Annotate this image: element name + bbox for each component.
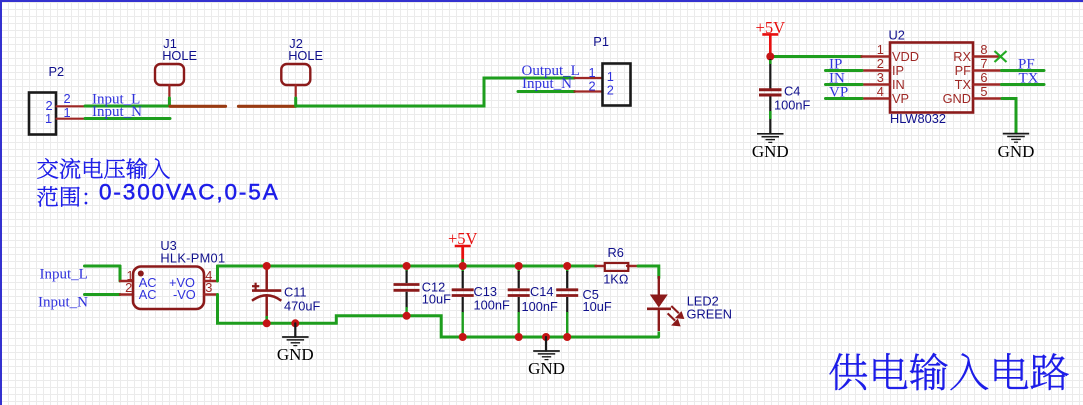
connector P1 body (603, 64, 631, 106)
svg-text:GREEN: GREEN (687, 307, 733, 322)
svg-text:2: 2 (607, 83, 614, 98)
U2 pin 5 stub (973, 97, 1002, 99)
ground GND right of U2 (998, 134, 1035, 161)
svg-text:IN: IN (892, 77, 905, 92)
node C11 top junction (263, 262, 271, 270)
wire L to P1 (296, 78, 575, 106)
P1 pin 1 stub (575, 77, 603, 79)
svg-text:8: 8 (980, 42, 987, 57)
wire Input_L from P2 (85, 105, 170, 108)
svg-text:C14: C14 (530, 284, 553, 299)
annotation 范围： (37, 186, 87, 206)
left border (0, 0, 2, 405)
svg-text:1: 1 (877, 42, 884, 57)
svg-text:1KΩ: 1KΩ (603, 272, 629, 287)
svg-text:Input_N: Input_N (92, 104, 142, 120)
U3 pin 4 stub (204, 280, 218, 282)
svg-text:GND: GND (277, 345, 314, 364)
svg-text:RX: RX (953, 49, 971, 64)
wire -VO down to bottom rail (218, 295, 659, 338)
U3 pin1 marker dot (138, 271, 144, 277)
svg-text:TX: TX (1019, 71, 1039, 87)
power +5V lower (448, 229, 478, 248)
node C14 bottom (515, 333, 523, 341)
svg-text:5: 5 (980, 84, 987, 99)
capacitor C5 (556, 266, 578, 337)
svg-text:0-300VAC,0-5A: 0-300VAC,0-5A (99, 180, 280, 205)
module U3 body (133, 267, 204, 310)
svg-text:P2: P2 (49, 64, 65, 79)
svg-text:470uF: 470uF (284, 299, 320, 314)
svg-text:2: 2 (125, 280, 132, 295)
svg-text:PF: PF (955, 63, 972, 78)
power +5V upper (756, 18, 786, 37)
U2 pin 7 stub (973, 69, 1002, 71)
R6 right stub (627, 265, 638, 267)
top border (0, 0, 1083, 2)
wire +5V down (769, 34, 772, 57)
wire J1 to Input_L (168, 98, 171, 106)
U3 pin 3 stub (204, 293, 218, 295)
svg-text:3: 3 (877, 70, 884, 85)
wire +5V lower down (461, 246, 464, 261)
svg-text:Input_L: Input_L (40, 267, 88, 283)
net label IN wire (826, 83, 863, 86)
net label TX wire (1002, 83, 1045, 86)
node C12 top (403, 262, 411, 270)
svg-text:2: 2 (589, 79, 596, 94)
node C5 bottom (563, 333, 571, 341)
U2 pin 2 stub (862, 69, 891, 71)
svg-text:HOLE: HOLE (288, 48, 323, 63)
capacitor C12 (394, 266, 420, 316)
node C14 top (515, 262, 523, 270)
svg-text:1: 1 (64, 105, 71, 120)
U2 pin 8 stub (973, 55, 999, 57)
svg-text:2: 2 (64, 91, 71, 106)
capacitor C13 (452, 266, 474, 337)
svg-text:HOLE: HOLE (162, 48, 197, 63)
svg-text:Input_N: Input_N (38, 295, 88, 311)
connector P2 body (29, 93, 56, 135)
svg-text:2: 2 (877, 56, 884, 71)
P2 pin 1 stub (57, 118, 86, 120)
capacitor C14 (508, 266, 530, 337)
node C12 bottom (403, 312, 411, 320)
resistor R6 body (605, 263, 629, 271)
svg-text:Input_N: Input_N (522, 76, 572, 92)
wire +5V stub green (461, 260, 464, 266)
capacitor C4 (759, 59, 782, 133)
svg-text:100nF: 100nF (522, 299, 558, 314)
svg-text:VDD: VDD (892, 49, 919, 64)
wire R6 to LED corner (638, 266, 659, 278)
node C5 top (563, 262, 571, 270)
node +5V/C4 junction (766, 53, 774, 61)
net label Input_N wire (bottom) (85, 293, 121, 296)
wire mains L segment b (239, 105, 296, 108)
node C11 bottom junction (263, 319, 271, 327)
svg-text:10uF: 10uF (422, 292, 451, 307)
svg-text:100nF: 100nF (774, 98, 810, 113)
svg-text:GND: GND (752, 142, 789, 161)
P1 pin 2 stub (575, 90, 603, 92)
wire Input_N to P1 (518, 90, 575, 93)
svg-text:P1: P1 (593, 34, 609, 49)
svg-text:-VO: -VO (173, 287, 196, 302)
IC U2 body (890, 43, 973, 113)
hole J1 body (155, 64, 184, 85)
svg-text:IP: IP (892, 63, 904, 78)
svg-text:VP: VP (892, 91, 909, 106)
svg-text:TX: TX (955, 77, 972, 92)
node mid GND junction (542, 333, 550, 341)
svg-text:C4: C4 (784, 84, 800, 99)
hole J2 pin (295, 85, 297, 99)
ground GND mid bottom (528, 351, 565, 378)
svg-text:GND: GND (998, 142, 1035, 161)
svg-text:U2: U2 (889, 28, 905, 43)
P2 pin 2 stub (57, 105, 86, 107)
hole J2 body (281, 64, 310, 85)
node C13 bottom (459, 333, 467, 341)
svg-text:HLK-PM01: HLK-PM01 (160, 250, 225, 265)
hole J1 pin (168, 85, 170, 99)
U2 pin 6 stub (973, 83, 1002, 85)
wire U2 GND pin down (1002, 99, 1016, 134)
svg-text:10uF: 10uF (583, 299, 612, 314)
svg-text:4: 4 (877, 84, 884, 99)
LED LED2 (647, 276, 683, 337)
title 供电输入电路 (830, 353, 1069, 390)
U2 pin 3 stub (862, 83, 891, 85)
wire J2 to L (294, 98, 297, 106)
svg-text:1: 1 (45, 111, 52, 126)
U3 pin 2 stub (120, 293, 133, 295)
net label PF wire (1002, 69, 1045, 72)
wire down to U3 pin1 (119, 266, 122, 281)
wire +VO rail up (216, 266, 219, 281)
svg-text:R6: R6 (608, 245, 624, 260)
U3 pin 1 stub (120, 280, 133, 282)
svg-text:100nF: 100nF (474, 298, 510, 313)
svg-text:3: 3 (205, 280, 212, 295)
wire to mid GND (545, 337, 547, 351)
U2 pin 4 stub (862, 97, 891, 99)
svg-text:GND: GND (528, 359, 565, 378)
wire +5V to U2 VDD (770, 55, 861, 58)
wire mains L segment a (170, 105, 226, 108)
svg-text:VP: VP (829, 85, 848, 101)
node C13 top (459, 262, 467, 270)
ground GND under C4 (752, 134, 789, 161)
U2 pin 1 stub (862, 55, 891, 57)
annotation 交流电压输入 (37, 158, 169, 179)
svg-text:GND: GND (943, 91, 971, 106)
node GND stub junction (291, 319, 299, 327)
capacitor C11 (polarized) (252, 266, 281, 322)
R6 left stub (596, 265, 605, 267)
net label Input_L wire (bottom) (85, 265, 121, 268)
svg-text:6: 6 (980, 70, 987, 85)
svg-text:C11: C11 (284, 285, 307, 300)
wire to GND under C11 (294, 323, 296, 337)
svg-text:HLW8032: HLW8032 (890, 111, 946, 126)
ground GND under C11 (277, 337, 314, 364)
no-connect X on U2 pin 8 (995, 51, 1007, 62)
wire top rail (218, 265, 597, 268)
svg-text:7: 7 (980, 56, 987, 71)
net label VP wire (826, 97, 863, 100)
wire Input_N from P2 (85, 117, 170, 120)
svg-text:AC: AC (139, 287, 157, 302)
net label IP wire (826, 69, 863, 72)
